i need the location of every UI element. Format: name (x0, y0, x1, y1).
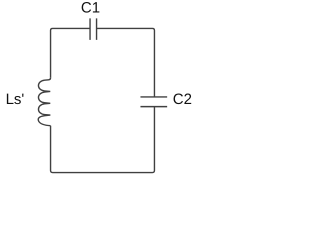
capacitor C2 plates (140, 97, 167, 107)
svg-text:C2: C2 (173, 91, 192, 108)
wire top-left: from C1 left plate to top-left corner (51, 28, 91, 77)
svg-text:C1: C1 (81, 0, 100, 17)
inductor Ls' (38, 78, 50, 126)
capacitor C1 plates (90, 18, 97, 39)
svg-text:Ls': Ls' (6, 91, 25, 108)
wire bottom-left: from inductor to bottom-left corner, along bottom to bottom-right corner, up to C2 bottom plate (51, 107, 155, 173)
wire top-right: from C1 right plate to top-right corner, down to C2 top plate (97, 28, 155, 97)
